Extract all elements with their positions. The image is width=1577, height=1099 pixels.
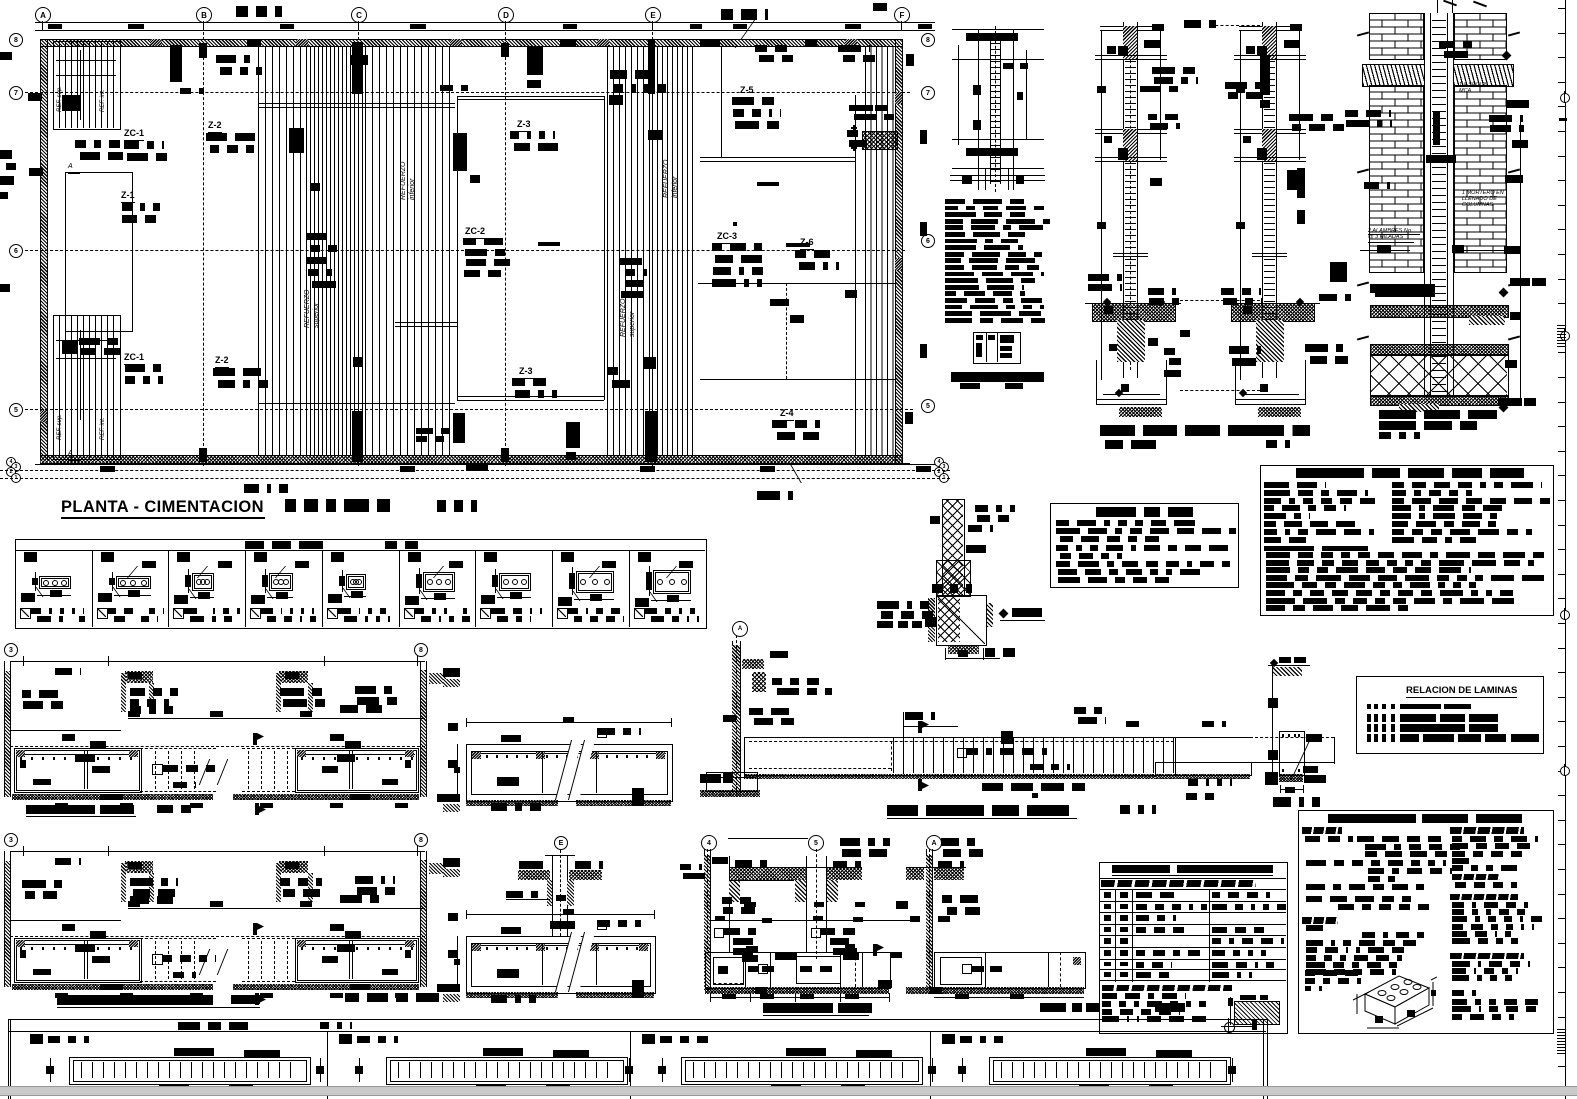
zapata detail cell 4 bbox=[245, 550, 246, 627]
section A soil speckle bbox=[934, 867, 964, 880]
beam section lower: break zigzag bbox=[555, 932, 582, 992]
detail square side hatches bbox=[928, 598, 935, 642]
section A dims bbox=[934, 997, 1084, 998]
mini zone right : black rows bbox=[858, 105, 890, 111]
notes left heading 2 bbox=[1302, 917, 1338, 924]
cell 6 leader to lower-left blob bbox=[407, 590, 427, 600]
zapata details row: outer box bbox=[15, 539, 707, 629]
grid bubble 6 left bbox=[9, 244, 23, 258]
section 3-8 lower: right beam box bbox=[295, 938, 419, 983]
L-wall labels bbox=[749, 708, 789, 715]
grid bubble 7 right bbox=[921, 86, 935, 100]
section 5 column bbox=[806, 856, 807, 952]
right upper footing with soil hatch bbox=[1231, 303, 1315, 322]
extra chips detail C bbox=[1107, 46, 1116, 54]
notes left paragraph 2 bbox=[1306, 860, 1446, 866]
blobs left of detail square bbox=[877, 601, 929, 609]
arrows above brick detail bbox=[1443, 0, 1457, 6]
detail C label clusters bbox=[1184, 20, 1216, 28]
cell 2 top labels bbox=[483, 1048, 523, 1056]
notes left paragraph 4 bbox=[1306, 896, 1411, 902]
section 3-8 upper: left wall hatch bbox=[4, 671, 10, 797]
brick field left bbox=[1369, 85, 1424, 273]
section 3-8 upper: label clusters upper bbox=[55, 668, 81, 675]
section 3-8 upper: right beam box bbox=[295, 748, 419, 793]
long beam labels above bbox=[1074, 707, 1102, 714]
section 3-8 lower: left beam box bbox=[14, 938, 142, 983]
section 4-5 upper blobs bbox=[744, 902, 756, 907]
zapata detail cell 2 bbox=[92, 550, 93, 627]
blobs upper middle bbox=[610, 70, 662, 79]
specification text box large bbox=[1260, 465, 1554, 616]
zapata corrida strip along F wall bbox=[865, 46, 895, 455]
grid bubble 3 left bbox=[11, 462, 21, 472]
section 3-8 upper: left beam box bbox=[14, 748, 142, 793]
cell 5 rebar dots bbox=[350, 579, 356, 585]
section 3-8 lower: right wall hatch bbox=[420, 860, 426, 987]
right margin ruler line bbox=[1565, 0, 1566, 1099]
right top flange bbox=[1239, 26, 1301, 27]
brick field right bbox=[1454, 85, 1507, 273]
label ZC-2 bbox=[465, 226, 485, 239]
stone wall mini elevation bbox=[942, 499, 965, 597]
black chip in B-C strip bbox=[289, 128, 304, 153]
zapata detail cell 3 bbox=[168, 550, 169, 627]
right outer dim verticals bbox=[1240, 30, 1241, 380]
ladder rungs bbox=[990, 42, 1001, 182]
notes box bottom right bbox=[1298, 810, 1554, 1034]
section 3-8 lower: right dashed beam bbox=[248, 941, 249, 979]
dotted rectangle detail bbox=[862, 131, 898, 150]
table bottom notes bbox=[1102, 985, 1232, 991]
section 3-8 upper: right edge blobs bbox=[443, 668, 460, 677]
black chip on column bbox=[1433, 112, 1440, 145]
beam section upper: break zigzag bbox=[555, 740, 582, 800]
section 3-8 upper: section flag markers bbox=[253, 733, 257, 745]
REFUERZO inferior text E strip bbox=[663, 160, 670, 199]
beam section lower: inner verticals bbox=[542, 943, 543, 985]
Z-3 upper blobs bbox=[510, 131, 555, 139]
room rectangle Z-1 bbox=[65, 172, 133, 332]
extra wall tick chips bbox=[560, 40, 576, 46]
section 3-8 upper: grid bubbles 3 and 8 bbox=[4, 643, 18, 657]
long beam bottom labels bbox=[982, 783, 1085, 791]
perimeter wall hatch right bbox=[895, 39, 902, 463]
Z-3 lower blobs bbox=[512, 378, 554, 386]
strip B-C lower break line bbox=[258, 403, 455, 404]
right lower footing bbox=[1235, 360, 1236, 405]
section 4-5 mid line bbox=[710, 920, 910, 921]
cell 5 dim+leader marks bbox=[339, 576, 345, 586]
grid F tick bbox=[901, 21, 902, 30]
zapata detail cell 5 bbox=[322, 550, 323, 627]
cell 3 leader to lower-left blob bbox=[177, 589, 197, 599]
long beam stirrup lines bbox=[893, 738, 1174, 773]
cell 3 bottom note bbox=[173, 608, 184, 619]
specification text box small bbox=[1050, 503, 1239, 588]
cell 1 dim+leader marks bbox=[32, 578, 38, 585]
cell 3 dim arrows bbox=[658, 1066, 666, 1074]
section 3-8 lower: ground lines bbox=[128, 908, 425, 909]
detail C bottom titles bbox=[1100, 425, 1310, 436]
table hatched sample rect bbox=[1234, 1001, 1280, 1025]
section A footing marks bbox=[962, 964, 972, 974]
section 4 column bbox=[710, 856, 711, 952]
section 3-8 lower: section flag markers bbox=[253, 923, 257, 935]
right dim line bbox=[1026, 50, 1027, 140]
grid bubble B top bbox=[196, 7, 212, 23]
bottom details row outer box bbox=[8, 1019, 1268, 1099]
cell 3 bottom blobs bbox=[771, 1084, 801, 1090]
Z-6 value blobs bbox=[795, 250, 835, 258]
ruler ticks bbox=[1558, 8, 1565, 9]
left second flange bbox=[1095, 129, 1167, 130]
notes right heading 5 bbox=[1452, 990, 1478, 996]
L-wall soil speckle bbox=[742, 659, 764, 669]
grid bubble 5 left bbox=[9, 403, 23, 417]
blobs below left bbox=[890, 952, 902, 958]
beam section upper: title blobs bbox=[491, 803, 541, 811]
footing gravel bbox=[705, 987, 889, 994]
wall outline lines bbox=[40, 39, 902, 40]
beam section upper: inner verticals bbox=[542, 751, 543, 793]
cell 4 dim arrows bbox=[958, 1066, 966, 1074]
ZC-1 upper value blobs bbox=[75, 140, 120, 148]
section 3-8 upper: right dashed beam bbox=[248, 751, 249, 789]
cell 4 bottom note bbox=[250, 608, 261, 619]
detail square with stone hatch bbox=[936, 595, 987, 646]
section 3-8 lower: dim ticks below bbox=[55, 993, 68, 998]
center column ladder bbox=[1424, 13, 1454, 395]
notes right heading 3 bbox=[1450, 894, 1518, 900]
black chips pair bbox=[1426, 155, 1456, 163]
grid dash-dot verticals in plan bbox=[203, 32, 204, 466]
section 3-8 lower: title bars bbox=[57, 995, 213, 1005]
blob row above detail square bbox=[932, 584, 977, 593]
note blob above grid B-C bbox=[236, 6, 282, 17]
RELACION DE LAMINAS box bbox=[1356, 676, 1544, 754]
footing inner marks bbox=[718, 966, 728, 974]
plan interior horizontal line x457-604 lower bbox=[395, 322, 457, 323]
ruler dense marks bbox=[1557, 325, 1566, 347]
zapata detail cell 7 bbox=[475, 550, 476, 627]
cell 3 beam drawing bbox=[681, 1057, 923, 1085]
detail wall section right: column shaft bbox=[1262, 22, 1263, 378]
cell 8 dim+leader marks bbox=[569, 573, 575, 589]
column dots bbox=[1282, 734, 1284, 737]
corner hatch patches on walls bbox=[150, 39, 162, 46]
label ZC-1 upper bbox=[124, 128, 144, 141]
notes brick label bbox=[1305, 970, 1365, 976]
L-wall hatch strip bbox=[732, 641, 733, 793]
detail B text paragraph bbox=[945, 199, 1026, 204]
label Z-5 bbox=[740, 85, 754, 98]
grid bubble 4 left bbox=[6, 457, 16, 467]
section 3-8 lower: left beam dots bbox=[20, 947, 22, 950]
right side markers brick bottom bbox=[1510, 278, 1530, 286]
tall black bar near B strip top bbox=[170, 45, 182, 82]
soil speckle band bbox=[729, 867, 806, 880]
label Z-3 upper bbox=[517, 119, 531, 132]
section 4-5 title bbox=[763, 1003, 833, 1013]
bottom row cell 4 bbox=[930, 1031, 931, 1099]
beam section upper: labels bbox=[501, 735, 521, 742]
column dim below bbox=[1280, 789, 1304, 790]
zapata detail cell 9 bbox=[629, 550, 630, 627]
row title blobs bbox=[245, 541, 323, 549]
ZC-3 value blobs bbox=[712, 243, 762, 251]
notes right heading 4 bbox=[1450, 953, 1524, 959]
section 3-8 upper: left beam dots bbox=[20, 757, 22, 760]
cell 1 rebar dots bbox=[43, 580, 49, 586]
Z-2 upper blobs bbox=[206, 133, 258, 141]
section 3-8 lower: break symbol bbox=[199, 949, 225, 975]
blob cluster inside E strip bbox=[620, 258, 646, 265]
left outer dim verticals bbox=[1101, 30, 1102, 380]
cell 4 rebar dots bbox=[273, 579, 279, 585]
notes left heading 1 bbox=[1302, 827, 1342, 834]
notes left paragraph 1 bbox=[1357, 836, 1445, 842]
section 3-8 upper: title bars bbox=[26, 805, 95, 814]
cell 6 dim+leader marks bbox=[416, 574, 422, 588]
beam section lower: column at grid E bbox=[554, 836, 568, 850]
beam section upper: top dim line bbox=[466, 722, 672, 723]
cell 8 leader to lower-left blob bbox=[560, 591, 580, 601]
brick sill black bar bbox=[1375, 284, 1435, 297]
right column rows bbox=[1392, 482, 1542, 488]
cell 4 bottom blobs bbox=[1079, 1084, 1109, 1090]
section flag right bbox=[873, 944, 877, 956]
section 3-8 upper: right wall hatch bbox=[420, 670, 426, 797]
cell 6 bottom note bbox=[404, 608, 415, 619]
cell 1 dim arrows bbox=[46, 1066, 54, 1074]
label Z-4 bbox=[780, 408, 794, 421]
strip top-left inner blobs bbox=[62, 95, 80, 111]
long beam gravel bbox=[744, 774, 1155, 779]
section 3-8 upper: top line bbox=[10, 661, 425, 662]
section 4-5 stirrup note bbox=[714, 928, 724, 938]
section 4-5 footing bbox=[705, 952, 891, 989]
grid D tick bbox=[505, 21, 506, 30]
small blob above F bbox=[873, 3, 887, 11]
section 3-8 lower: label clusters upper bbox=[55, 858, 81, 865]
top ref line bbox=[728, 838, 808, 839]
beam section lower: top dim line bbox=[466, 914, 655, 915]
dimension text blobs on top chain bbox=[48, 24, 62, 29]
table cell chips bbox=[1104, 892, 1111, 898]
REFUERZO superior text E strip bbox=[620, 299, 627, 338]
cell 2 dim+leader marks bbox=[109, 578, 115, 585]
cell 9 bottom note bbox=[634, 608, 645, 619]
left margin chips bbox=[0, 150, 12, 159]
grid bubble 5 right bbox=[921, 399, 935, 413]
section A title bbox=[1040, 1003, 1066, 1012]
wall-footing section A bbox=[926, 849, 927, 990]
left cluster between C and D bbox=[1330, 262, 1347, 282]
brick detail dim chips bbox=[1377, 245, 1391, 253]
notes right heading 2 bbox=[1452, 874, 1500, 880]
section 3-8 upper: dim ticks below bbox=[55, 803, 68, 808]
cell 7 rebar dots bbox=[503, 579, 509, 585]
beam section lower: beam outer box bbox=[466, 936, 656, 994]
left lower footing bbox=[1096, 360, 1097, 405]
cell 4 top labels bbox=[1086, 1048, 1126, 1056]
section 3-8 upper: break symbol bbox=[199, 759, 225, 785]
label Z-6 bbox=[800, 237, 814, 250]
grid bubble 6 right bbox=[921, 234, 935, 248]
grid bubble 3 right bbox=[939, 462, 949, 472]
table slanted header bbox=[1101, 880, 1256, 887]
notes title bar bbox=[1328, 814, 1416, 823]
section 3-8 lower: wall stub 2 bbox=[279, 861, 308, 873]
grid dash-dot horizontals in plan bbox=[25, 92, 910, 93]
grid A tick bbox=[42, 21, 43, 30]
cell 2 beam drawing bbox=[386, 1057, 628, 1085]
section 4: wall strips bbox=[704, 849, 705, 990]
brick detail labels bbox=[1459, 82, 1505, 98]
label Z-1 bbox=[121, 190, 135, 203]
section 3-8 lower: grid bubbles 3 and 8 bbox=[4, 833, 18, 847]
cell 2 dim arrows bbox=[355, 1066, 363, 1074]
Z-5 value blobs bbox=[732, 97, 780, 105]
cluster near bottom-left of ZC-2 bbox=[416, 428, 449, 434]
brick panel top-left bbox=[1369, 13, 1424, 60]
section flags on long beam bbox=[918, 721, 922, 733]
section 3-8 upper: mid dashed line bbox=[10, 746, 425, 747]
bottom row titles bbox=[178, 1022, 252, 1030]
cell 5 bottom note bbox=[327, 608, 338, 619]
dashed links between details bbox=[1180, 300, 1260, 301]
footing vertical dividers bbox=[745, 952, 746, 987]
section 4-5 labels bbox=[680, 864, 702, 870]
cell 4 leader to lower-left blob bbox=[254, 589, 274, 599]
note blob below plan right bbox=[757, 491, 801, 500]
L-wall footing bbox=[706, 772, 758, 792]
section 3-8 upper: gravel band bbox=[12, 794, 213, 800]
ZC-2 value blobs bbox=[463, 238, 507, 245]
long footing beam plan: top line bbox=[744, 737, 1250, 738]
detail B bottom title bar bbox=[951, 372, 1044, 382]
strip top-left inner dim lines bbox=[56, 60, 116, 61]
cell 2 bottom blobs bbox=[476, 1084, 506, 1090]
cell 7 leader to lower-left blob bbox=[484, 589, 504, 599]
zapata detail cell 1 bbox=[24, 552, 37, 562]
detail B mini table bbox=[973, 332, 1021, 364]
long beam title bbox=[887, 805, 1077, 816]
notes right heading 1 bbox=[1450, 827, 1524, 834]
grid bubble 2 right bbox=[934, 467, 944, 477]
section A labels bbox=[941, 838, 981, 846]
column rect section bbox=[1279, 731, 1305, 776]
notes left paragraph 3 bbox=[1306, 884, 1428, 890]
section A gravel bbox=[906, 987, 1084, 994]
grid bubble 4 right bbox=[934, 457, 944, 467]
REFUERZO superior text left strip bbox=[304, 290, 311, 329]
label cluster right of top-left strip bbox=[216, 55, 258, 63]
detail B bottom cross lines bbox=[985, 168, 986, 190]
Z-2 lower blobs bbox=[213, 368, 263, 376]
long beam right step bbox=[1155, 762, 1335, 763]
cell 5 leader to lower-left blob bbox=[330, 588, 350, 598]
cell 9 rebar dots bbox=[657, 579, 663, 585]
full width paragraph bbox=[1264, 546, 1368, 551]
grid bubble 8 right bbox=[921, 33, 935, 47]
lamina rows bbox=[1367, 704, 1371, 709]
cell 9 dim+leader marks bbox=[646, 572, 652, 590]
beam section upper: gravel band bbox=[466, 800, 558, 806]
grid bubble C top bbox=[351, 7, 367, 23]
zapata detail cell 8 bbox=[552, 550, 553, 627]
beam section lower: rebar dots row bbox=[476, 947, 478, 950]
label ZC-1 lower bbox=[124, 352, 144, 365]
note blob below plan left bbox=[244, 484, 288, 493]
tall chip right unit bbox=[1260, 55, 1270, 95]
brick panel top-right bbox=[1454, 13, 1507, 60]
beam section upper: corner hatches bbox=[472, 752, 481, 759]
grid bubble F top bbox=[894, 7, 910, 23]
table crosshair bbox=[1224, 1022, 1235, 1033]
ZC-1 lower blobs bbox=[79, 338, 119, 345]
white zone ZC-2 boundary bbox=[457, 96, 604, 97]
detail: column tie section ladder bbox=[978, 30, 979, 190]
REFUERZO inferior text left strip bbox=[400, 162, 407, 201]
L-wall section: bubble bbox=[732, 621, 748, 637]
label ZC-3 bbox=[717, 231, 737, 244]
grid E tick bbox=[652, 21, 653, 30]
column hatch base bbox=[1279, 774, 1303, 782]
left column rows bbox=[1264, 482, 1326, 488]
cell 9 leader to lower-left blob bbox=[637, 592, 657, 602]
section 3-8 upper: wall stub 2 bbox=[279, 671, 308, 683]
cell 4 dim+leader marks bbox=[262, 575, 268, 587]
cell 3 rebar dots bbox=[196, 579, 202, 585]
cell 6 rebar dots bbox=[427, 579, 433, 585]
mid arrow blob in ZC-2 bbox=[538, 242, 560, 246]
beam section upper: beam outer box bbox=[466, 744, 673, 802]
cluster right of Z-5 zone bbox=[847, 130, 865, 137]
diamond markers bbox=[1157, 298, 1165, 306]
bottom dimension dash lines bbox=[35, 464, 935, 465]
cell 1 bottom blobs bbox=[159, 1084, 189, 1090]
zapata detail cell 6 bbox=[399, 550, 400, 627]
detail square bottom bbox=[948, 646, 979, 654]
grid bubble 1 right bbox=[939, 473, 949, 483]
gray band bottom bbox=[0, 1086, 1577, 1087]
cell 2 rebar dots bbox=[120, 580, 126, 586]
grid bubble D top bbox=[498, 7, 514, 23]
notes left paragraph 5 bbox=[1306, 925, 1328, 931]
right dim line of brick detail bbox=[1520, 115, 1521, 405]
grid bubble 2 left bbox=[6, 467, 16, 477]
black wall marks at grid intersections bbox=[199, 43, 207, 58]
mortar band bbox=[1370, 305, 1509, 318]
notes isometric brick svg bbox=[1347, 966, 1437, 1030]
grid bubble E top bbox=[645, 7, 661, 23]
cell 1 top labels bbox=[174, 1048, 214, 1056]
foundation plan PLANTA-CIMENTACION : top grid dimension lines bbox=[35, 22, 935, 23]
zapata corrida strip E : vertical rebar lines bbox=[607, 46, 652, 455]
section 3-8 lower: right edge blobs bbox=[443, 858, 460, 867]
left top flange bbox=[1100, 26, 1162, 27]
brick detail arrows bbox=[1357, 31, 1369, 36]
wall-footing section grid 4-5 bbox=[701, 835, 717, 851]
bottom row cell 2 bbox=[327, 1031, 328, 1099]
strip bottom-left blob bbox=[62, 340, 78, 354]
table grid bbox=[1099, 901, 1286, 902]
arrow blob Z zone bbox=[786, 243, 810, 247]
table title bars bbox=[1112, 865, 1170, 873]
section 3-8 lower: mid dashed beam bbox=[140, 938, 216, 939]
